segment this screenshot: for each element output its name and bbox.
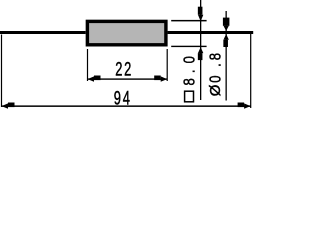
dimension 22 extension line left [87,49,88,81]
svg-text:8: 8 [207,53,224,60]
dimension diameter 0.8 arrow down [223,18,230,31]
svg-text:.: . [181,69,198,73]
dimension 22 arrow left [88,76,101,82]
dimension diameter 0.8 line upper [226,11,227,31]
svg-text:8: 8 [181,78,198,85]
dimension diameter 0.8 line lower [226,34,227,101]
dimension 8.0 extension line bottom [171,46,206,47]
dimension 94 line [2,105,251,107]
svg-text:Ø: Ø [207,84,224,96]
dimension 8.0 arrow down [198,7,204,22]
dimension 22 line [88,78,168,79]
svg-text:0: 0 [181,56,198,63]
dimension 8.0 line [200,0,201,100]
dimension 94 arrow left [2,103,15,109]
dimension 94 extension line right [250,34,251,108]
wire lead left [0,31,86,34]
wire lead right [168,31,254,34]
dimension 8.0 extension line top [171,20,206,22]
svg-text:22: 22 [115,59,133,80]
dimension 8.0 label square symbol [185,91,194,102]
dimension diameter 0.8 arrow up [223,34,229,47]
resistor body R1 [86,20,168,47]
dimension 22 extension line right [167,49,168,81]
dimension 8.0 arrow up [198,47,204,60]
svg-text:.: . [207,63,224,67]
svg-text:0: 0 [207,75,224,82]
dimension 22 arrow right [154,76,167,82]
svg-text:94: 94 [114,88,132,109]
dimension 94 extension line left [1,35,2,108]
dimension 94 arrow right [238,103,251,109]
